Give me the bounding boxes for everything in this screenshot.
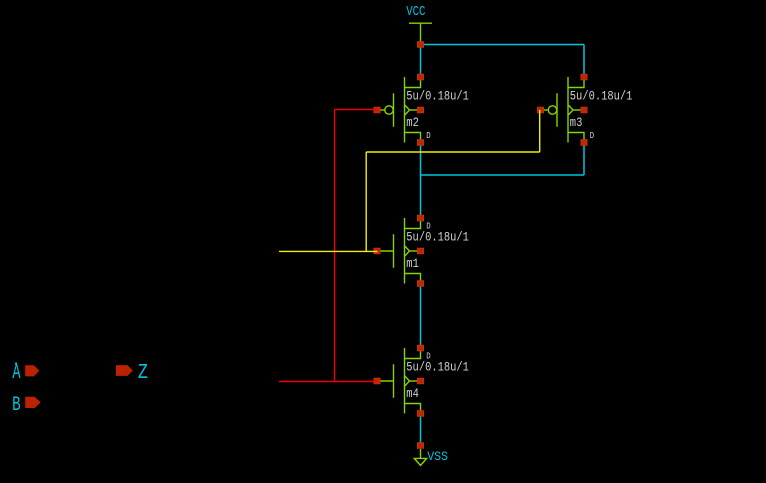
ground symbol VSS: [414, 449, 426, 465]
wire yellow horizontal: [366, 151, 540, 153]
m3 drain/source bottom pin: [581, 140, 587, 146]
wire m1 source down to m4 drain: [420, 285, 422, 348]
svg-text:5u/0.18u/1: 5u/0.18u/1: [570, 88, 633, 103]
wire down to m3 source: [583, 45, 585, 78]
m2 bulk pin: [417, 107, 423, 113]
wire output node horizontal: [421, 174, 585, 176]
wire m2 drain down to m1 drain: [420, 143, 422, 219]
pmos transistor m3: [541, 77, 585, 143]
m1 drain/source bottom pin: [417, 281, 423, 287]
m2 gate pin: [374, 107, 380, 113]
svg-text:m1: m1: [406, 256, 419, 271]
svg-text:m2: m2: [406, 115, 419, 130]
svg-text:D: D: [426, 351, 430, 361]
svg-text:m4: m4: [406, 386, 419, 401]
svg-text:VCC: VCC: [406, 4, 425, 20]
wire red to m2 gate: [335, 109, 378, 111]
nmos transistor m1: [377, 218, 421, 284]
m4 gate pin: [374, 378, 380, 384]
svg-text:5u/0.18u/1: 5u/0.18u/1: [406, 229, 469, 244]
wire red to m4 gate: [279, 381, 378, 383]
wire yellow from m3 gate down: [539, 110, 541, 152]
wire yellow to m1 gate: [279, 250, 378, 252]
m4 drain/source bottom pin: [417, 411, 423, 417]
m4 bulk pin: [417, 378, 423, 384]
output pin Z arrow: [116, 365, 133, 376]
m3 drain/source top pin: [581, 74, 587, 80]
wire yellow vertical: [365, 152, 367, 251]
m2 drain/source bottom pin: [417, 140, 423, 146]
m4 drain/source top pin: [417, 345, 423, 351]
m1 drain/source top pin: [417, 215, 423, 221]
svg-text:m3: m3: [570, 115, 583, 130]
wire red vertical: [334, 110, 336, 382]
wire m4 source down to VSS: [420, 414, 422, 446]
m2 drain/source top pin: [417, 74, 423, 80]
m3 bulk pin: [581, 107, 587, 113]
node VSS pin: [417, 443, 423, 449]
node VCC junction pin: [417, 42, 423, 48]
svg-text:5u/0.18u/1: 5u/0.18u/1: [406, 88, 469, 103]
svg-text:A: A: [12, 362, 20, 385]
m1 bulk pin: [417, 248, 423, 254]
input pin B arrow: [25, 397, 40, 408]
svg-text:5u/0.18u/1: 5u/0.18u/1: [406, 359, 469, 374]
input pin label A: [12, 362, 20, 385]
svg-text:D: D: [590, 131, 594, 141]
svg-text:D: D: [426, 131, 430, 141]
m1 gate pin: [374, 248, 380, 254]
svg-text:B: B: [12, 394, 21, 417]
wire up to m3 drain: [583, 143, 585, 176]
m3 gate pin: [537, 107, 543, 113]
pmos transistor m2: [377, 77, 421, 143]
nmos transistor m4: [377, 348, 421, 414]
svg-text:Z: Z: [138, 362, 148, 385]
input pin A arrow: [25, 365, 39, 376]
svg-text:D: D: [426, 221, 430, 231]
power symbol VCC: [409, 23, 432, 41]
svg-text:VSS: VSS: [427, 450, 448, 464]
wire VCC horizontal to m3: [421, 44, 585, 46]
wire VCC down to m2 source: [420, 45, 422, 78]
